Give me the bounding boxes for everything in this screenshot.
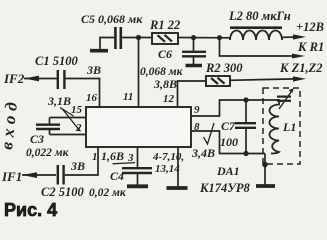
ground (pins 4-7) — [167, 186, 188, 190]
ground (C5) — [100, 38, 114, 50]
svg-text:С1 5100: С1 5100 — [35, 54, 78, 68]
svg-text:4-7,10,: 4-7,10, — [152, 151, 184, 163]
svg-text:15: 15 — [71, 104, 83, 116]
inductor L2 — [230, 31, 282, 40]
measure arrow 3,1V to pin 2 — [62, 109, 80, 132]
svg-text:DA1: DA1 — [216, 164, 240, 178]
svg-text:0,022 мк: 0,022 мк — [26, 147, 70, 159]
inductor L2 core bar — [230, 26, 282, 29]
svg-text:С3: С3 — [30, 132, 44, 146]
svg-text:К Z1,Z2: К Z1,Z2 — [279, 61, 323, 75]
node C7 bottom — [243, 151, 248, 156]
node C6 — [191, 35, 196, 40]
wire IF2 to C1 — [24, 78, 57, 80]
arrow +12V — [293, 34, 306, 39]
svg-text:13,14: 13,14 — [155, 163, 180, 175]
svg-text:2: 2 — [75, 122, 82, 134]
svg-text:16: 16 — [86, 92, 98, 104]
svg-text:8: 8 — [194, 121, 200, 133]
svg-text:3В: 3В — [86, 63, 101, 77]
svg-text:1,6В: 1,6В — [101, 149, 124, 163]
node C5/pin11 — [136, 35, 141, 40]
svg-text:К174УР8: К174УР8 — [199, 181, 251, 195]
svg-text:0,02 мк: 0,02 мк — [89, 187, 127, 199]
IF1 output arrow — [22, 172, 37, 178]
svg-text:3,4В: 3,4В — [191, 146, 215, 160]
arrow K Z1,Z2 — [293, 76, 306, 81]
svg-text:R2 300: R2 300 — [205, 61, 243, 75]
measure arrow 3,4V to pin 8 — [204, 123, 215, 144]
wire pin 12 to R2 — [178, 81, 207, 107]
svg-text:12: 12 — [163, 93, 175, 105]
wire pin 11 — [138, 38, 140, 108]
ground (C4) — [127, 184, 148, 188]
wire R2 to K Z1,Z2 — [230, 79, 295, 80]
capacitor C4 — [122, 167, 152, 169]
svg-text:3,1В: 3,1В — [47, 94, 71, 108]
wire pin 15 — [50, 117, 87, 119]
capacitor C1 — [57, 70, 59, 89]
svg-text:Рис. 4: Рис. 4 — [4, 200, 57, 220]
svg-text:С6: С6 — [158, 47, 172, 61]
wire tank to ground — [264, 154, 266, 186]
wire C1 to pin 16 — [66, 79, 100, 108]
wire pin 2 — [50, 134, 87, 136]
ground (C6) — [186, 64, 203, 68]
wire pins 4-7,10,13,14 to ground — [177, 147, 179, 187]
svg-text:К R1: К R1 — [297, 40, 324, 54]
measure arrow 3,1V to pin 15 — [60, 108, 74, 117]
svg-text:100: 100 — [220, 135, 238, 149]
wire C2 to pin 1 — [65, 147, 98, 175]
svg-text:1: 1 — [92, 151, 98, 163]
svg-text:11: 11 — [123, 91, 133, 103]
svg-text:С4: С4 — [110, 169, 124, 183]
IF2 output arrow — [24, 76, 39, 82]
svg-text:IF1: IF1 — [1, 169, 22, 184]
node at dashed box edge — [262, 162, 268, 168]
svg-text:3: 3 — [127, 152, 134, 164]
wire R1 to L2 — [178, 37, 230, 39]
capacitor C6 — [193, 38, 195, 51]
wire C5 to R1 — [122, 37, 152, 39]
svg-text:+12В: +12В — [296, 20, 324, 34]
arrow K R1 — [292, 54, 305, 59]
svg-text:L2 80 мкГн: L2 80 мкГн — [228, 9, 291, 23]
wire pin 3 to C4 — [137, 147, 139, 167]
trimmer capacitor plates — [277, 95, 291, 97]
svg-text:R1 22: R1 22 — [149, 18, 180, 32]
capacitor C7 — [245, 100, 247, 122]
capacitor C3 — [49, 118, 51, 124]
svg-text:С7: С7 — [221, 119, 236, 133]
node K R1 branch — [217, 35, 222, 40]
trimmer adjust arrow — [279, 90, 293, 109]
dashed block Z — [263, 88, 300, 164]
wire K R1 branch — [220, 38, 295, 56]
svg-text:IF2: IF2 — [3, 71, 25, 86]
inductor L1 — [270, 101, 281, 154]
wire L2 to +12V — [282, 36, 295, 38]
resistor R1 — [152, 33, 178, 44]
ground (tank) — [256, 184, 275, 188]
resistor R2 — [206, 76, 230, 86]
svg-text:3,8В: 3,8В — [153, 77, 177, 91]
wire pin 8 — [191, 131, 265, 154]
wire IF1 to C2 — [22, 174, 56, 176]
capacitor C2 — [57, 165, 59, 185]
svg-text:9: 9 — [194, 104, 200, 116]
label link line — [113, 163, 136, 164]
wire pin 9 — [191, 100, 280, 116]
node C7 top — [243, 97, 248, 102]
svg-text:L1: L1 — [282, 120, 296, 134]
svg-text:3В: 3В — [70, 159, 85, 173]
svg-text:С5 0,068 мк: С5 0,068 мк — [81, 12, 143, 26]
capacitor C5 — [114, 27, 117, 49]
svg-text:С2 5100: С2 5100 — [41, 185, 84, 199]
IC DA1 box — [86, 107, 191, 147]
